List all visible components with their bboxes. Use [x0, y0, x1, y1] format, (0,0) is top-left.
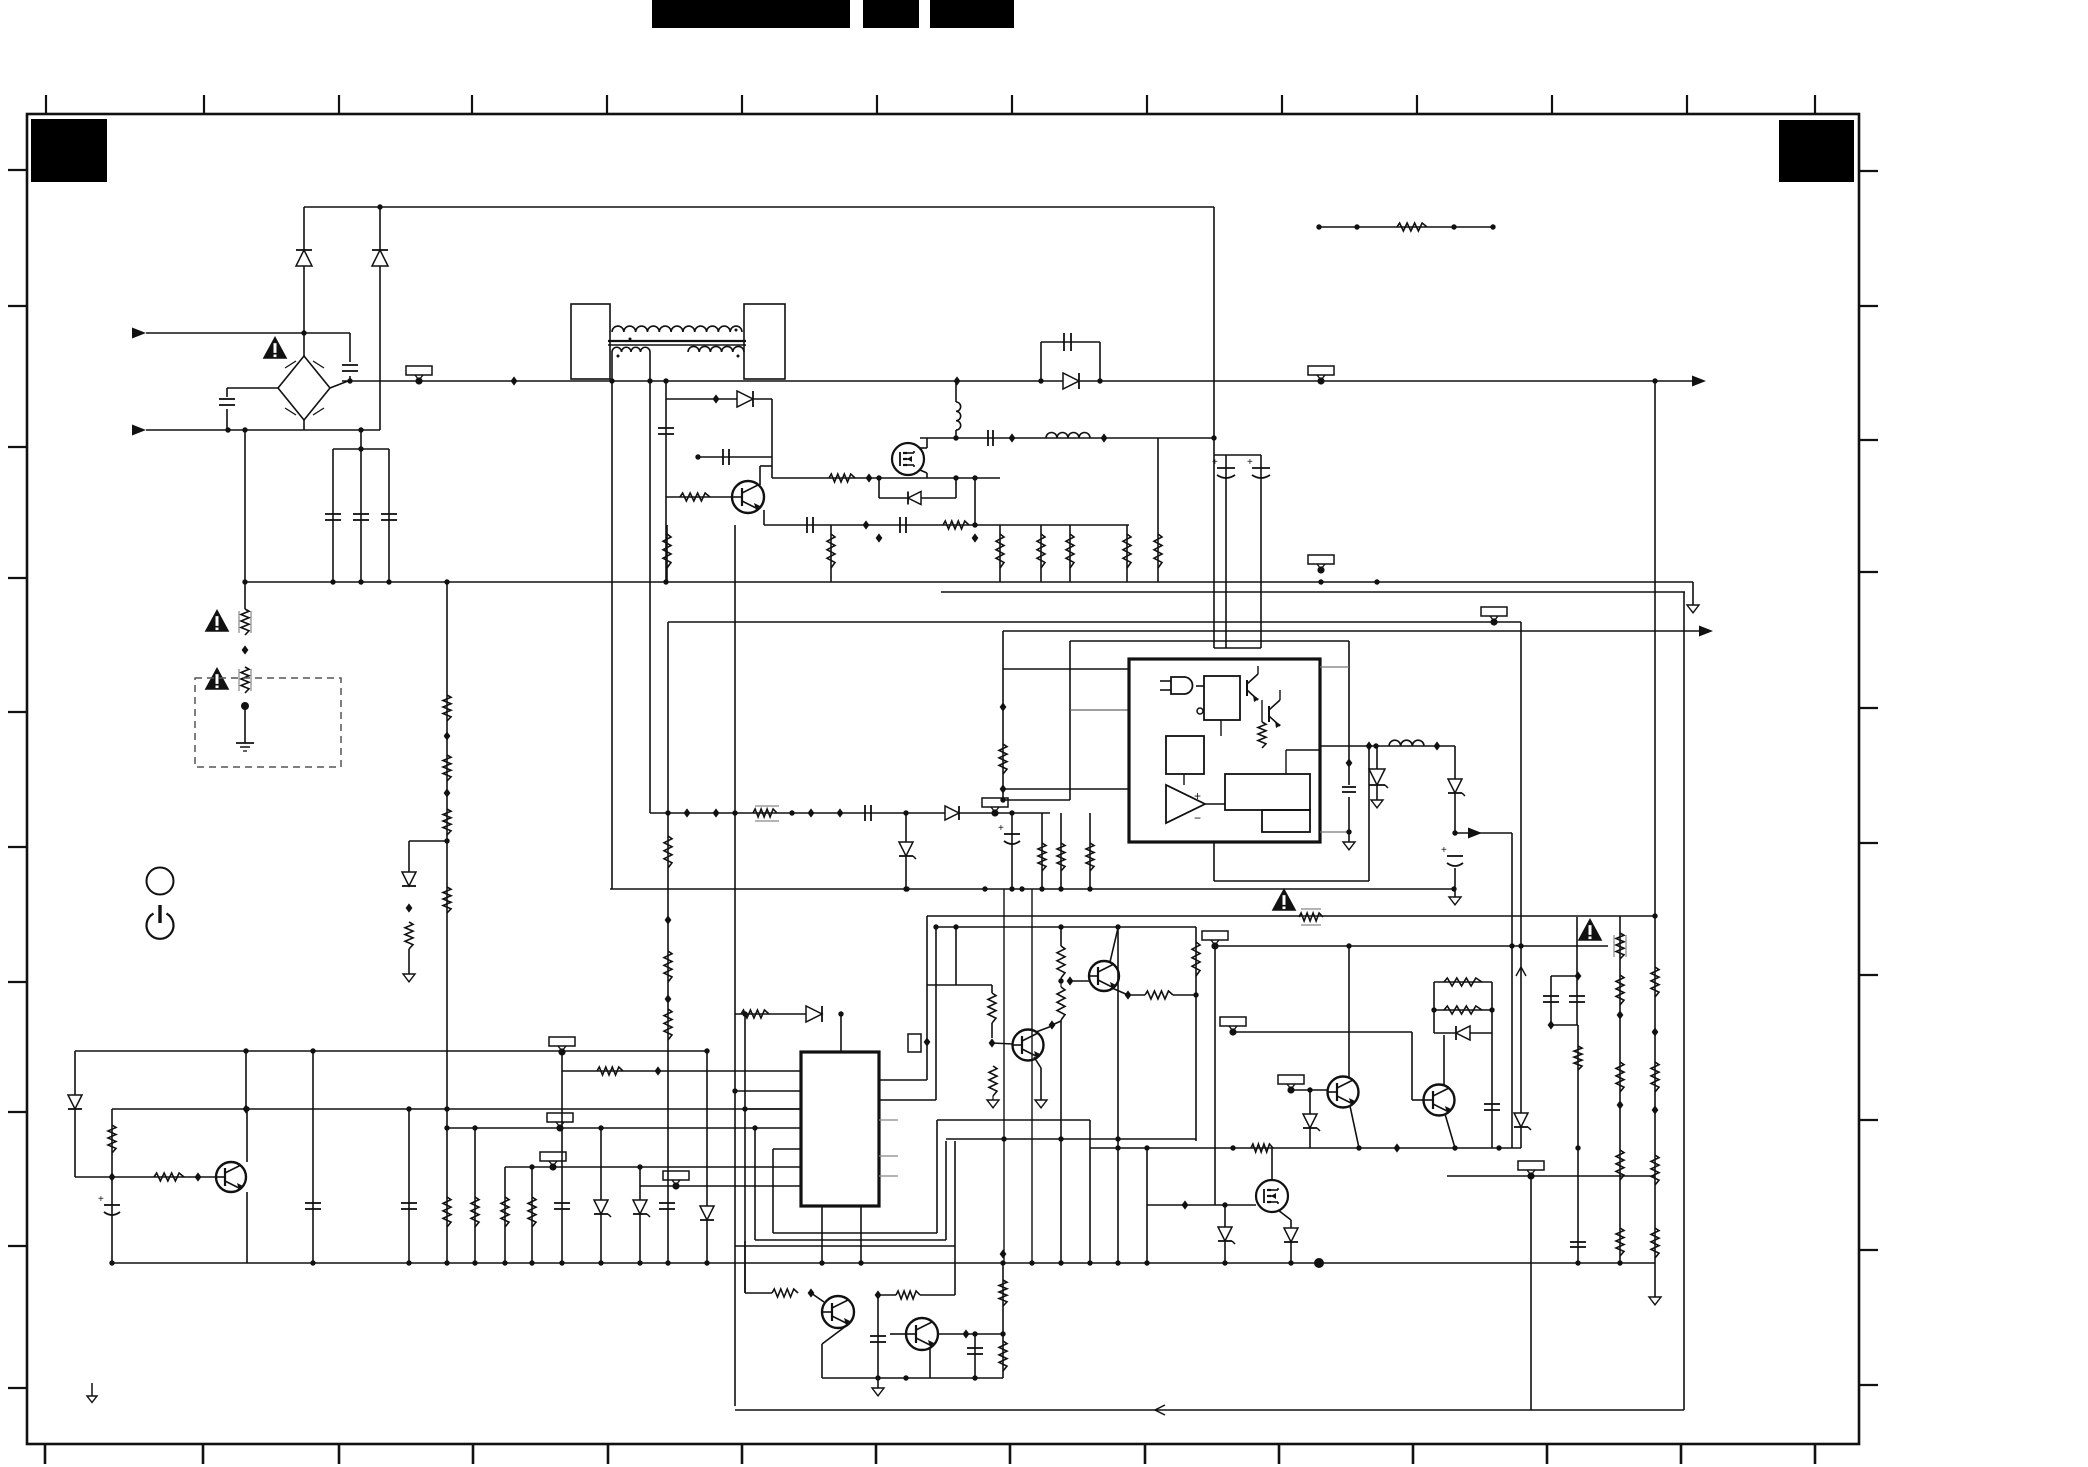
svg-text:+: + [1212, 457, 1218, 468]
svg-text:+: + [1441, 845, 1447, 856]
svg-text:+: + [1247, 457, 1253, 468]
svg-text:+: + [98, 1194, 104, 1205]
svg-text:+: + [1194, 789, 1201, 803]
svg-text:−: − [1194, 811, 1201, 825]
svg-text:+: + [998, 823, 1004, 834]
